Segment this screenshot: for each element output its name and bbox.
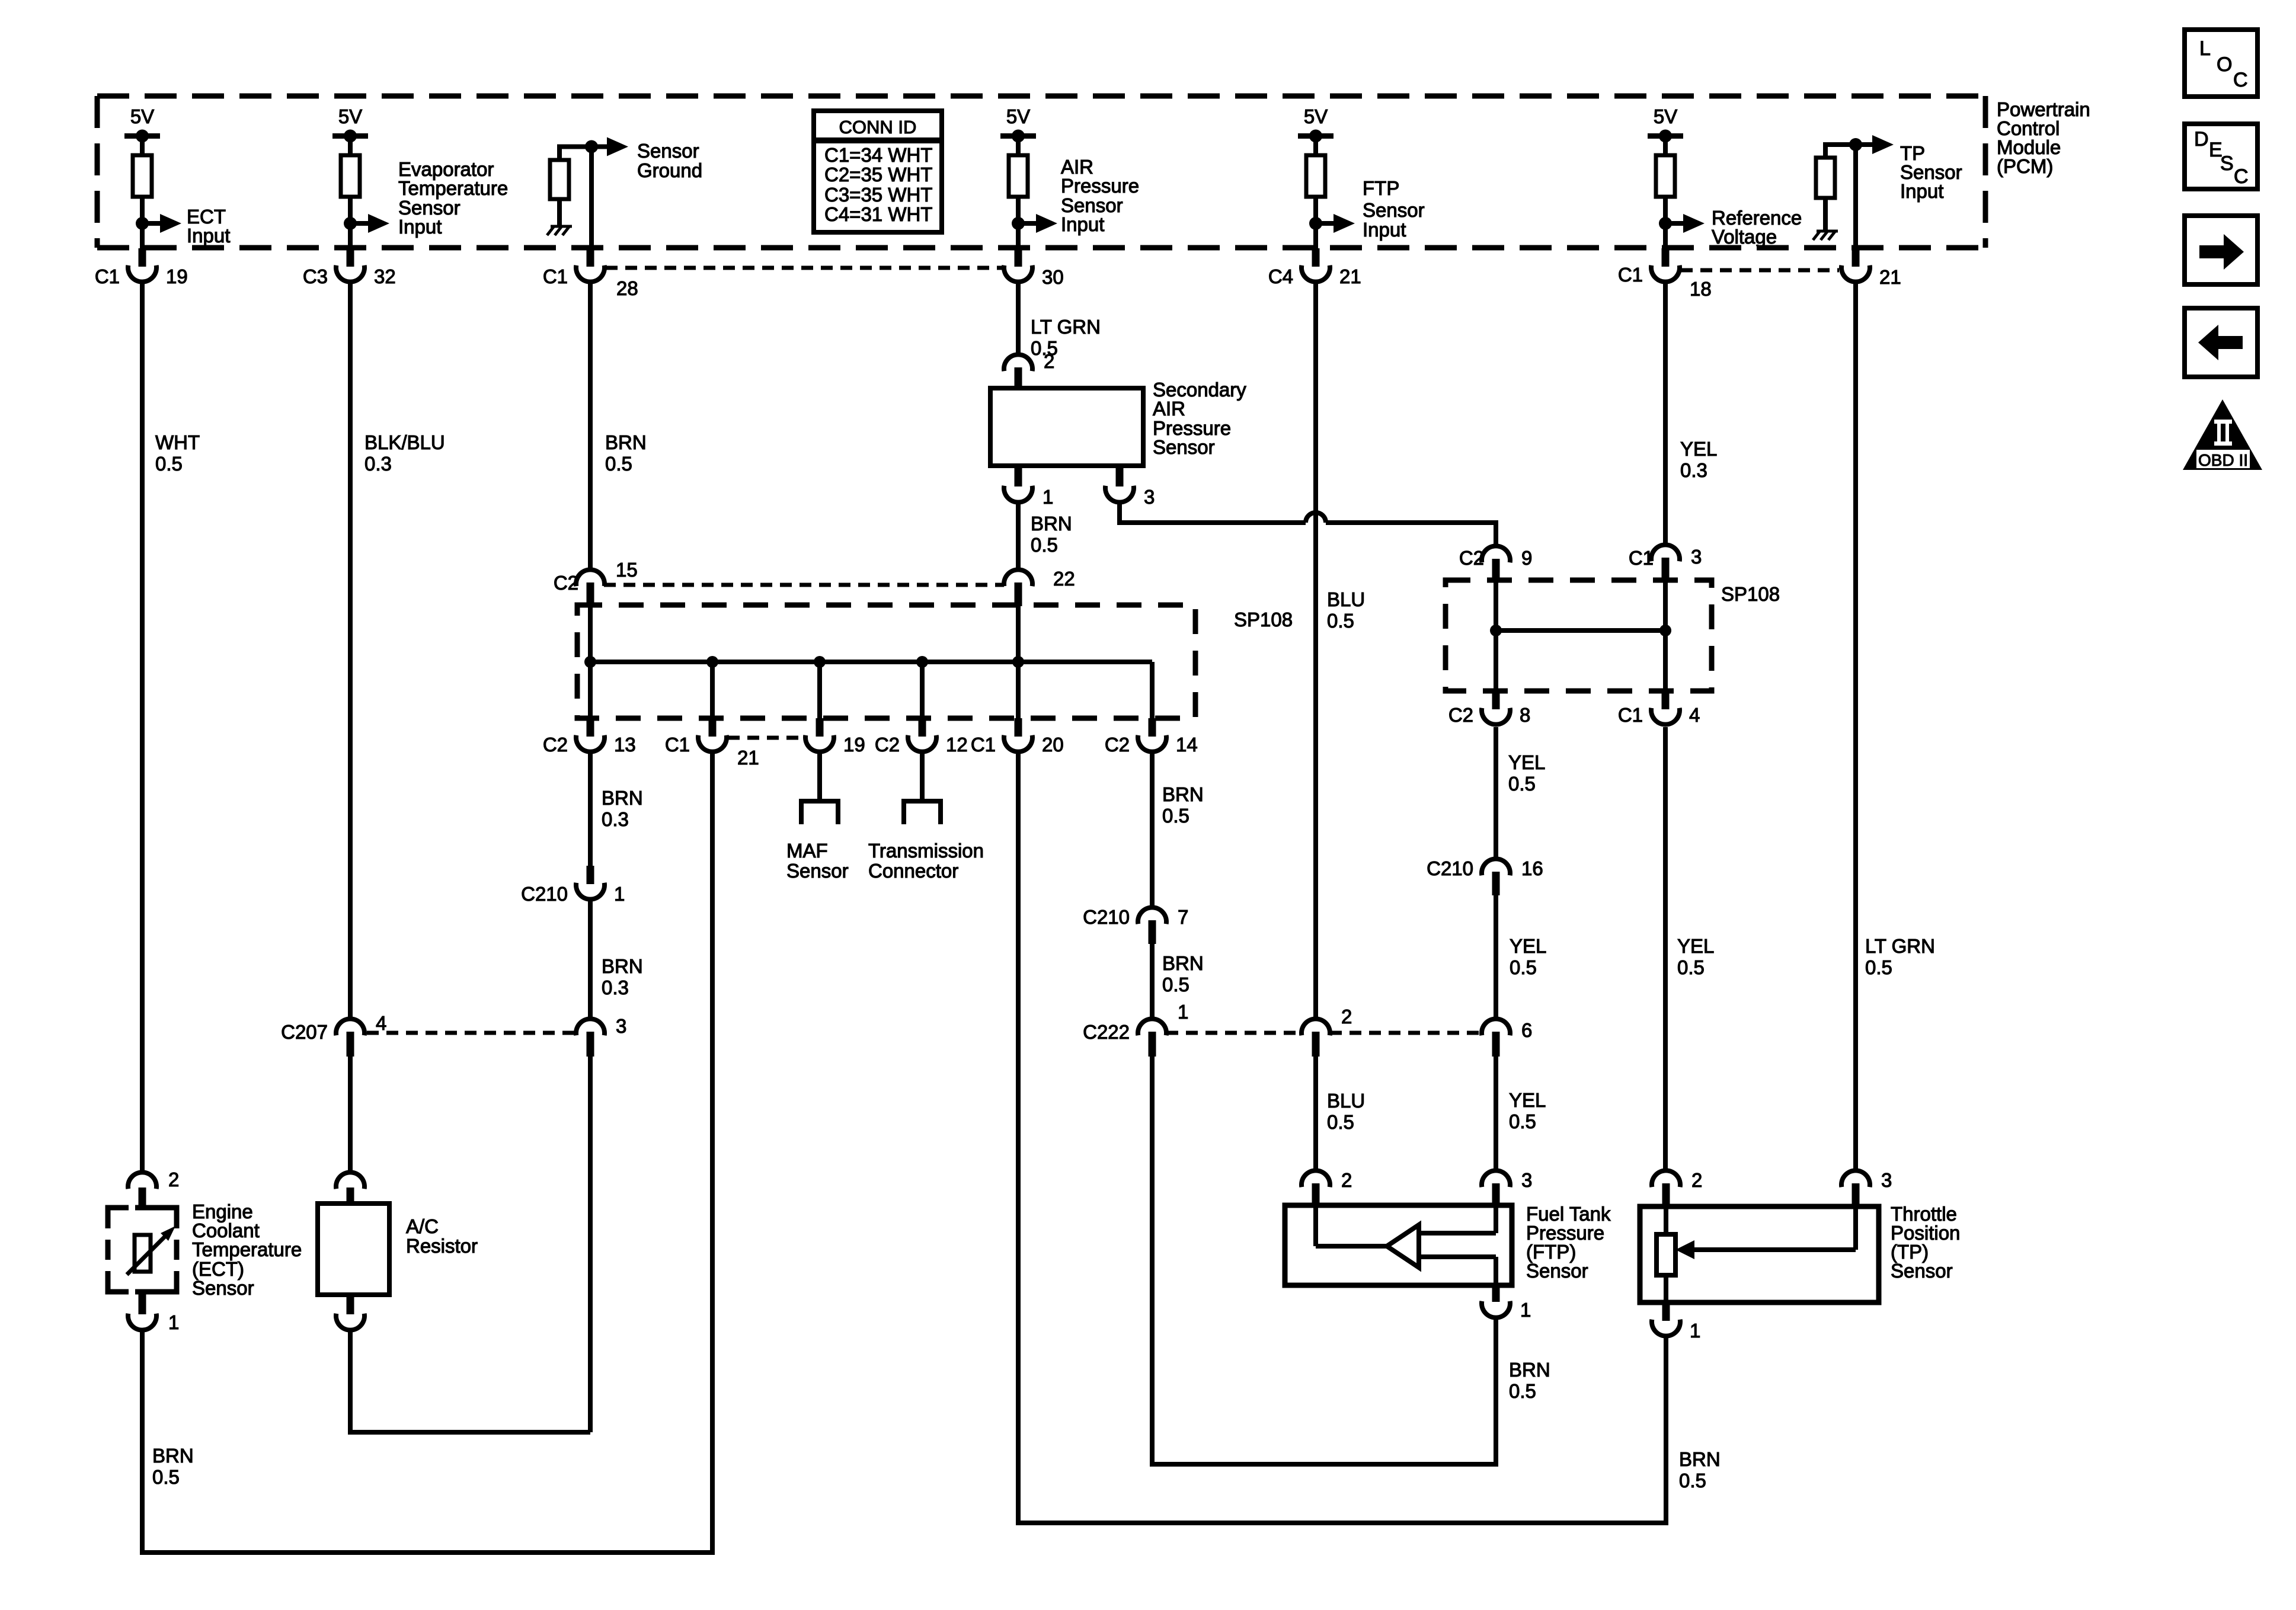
svg-text:BRN: BRN — [602, 787, 643, 809]
svg-text:YEL: YEL — [1510, 935, 1546, 957]
svg-text:4: 4 — [1689, 704, 1700, 726]
svg-text:28: 28 — [616, 277, 638, 299]
svg-text:1: 1 — [1690, 1320, 1700, 1342]
svg-text:19: 19 — [843, 734, 865, 756]
svg-text:C1: C1 — [543, 265, 568, 287]
svg-text:BLU: BLU — [1327, 588, 1365, 610]
svg-text:12: 12 — [946, 734, 968, 756]
svg-text:FTP: FTP — [1363, 177, 1399, 199]
svg-text:21: 21 — [1339, 265, 1361, 287]
svg-text:1: 1 — [168, 1311, 179, 1333]
svg-text:0.3: 0.3 — [1680, 459, 1707, 481]
svg-text:BRN: BRN — [605, 431, 647, 453]
svg-text:16: 16 — [1521, 857, 1543, 879]
svg-text:LT GRN: LT GRN — [1865, 935, 1935, 957]
svg-text:L: L — [2199, 37, 2211, 60]
svg-text:O: O — [2217, 53, 2232, 76]
svg-text:0.5: 0.5 — [155, 453, 183, 475]
svg-text:C: C — [2234, 165, 2249, 188]
svg-text:LT GRN: LT GRN — [1031, 316, 1101, 338]
svg-text:5V: 5V — [1304, 105, 1328, 127]
svg-text:C1: C1 — [1618, 264, 1643, 286]
svg-text:Input: Input — [187, 225, 230, 247]
svg-text:Input: Input — [1061, 213, 1104, 235]
svg-text:BRN: BRN — [1162, 783, 1204, 805]
svg-text:Sensor: Sensor — [1891, 1260, 1953, 1282]
svg-text:Sensor: Sensor — [637, 140, 699, 162]
svg-text:C210: C210 — [521, 883, 568, 905]
svg-text:0.5: 0.5 — [605, 453, 632, 475]
svg-text:C2: C2 — [1105, 734, 1130, 756]
svg-text:18: 18 — [1690, 278, 1712, 300]
svg-text:C210: C210 — [1083, 906, 1130, 928]
svg-text:3: 3 — [616, 1015, 626, 1037]
svg-text:WHT: WHT — [155, 431, 200, 453]
svg-text:22: 22 — [1053, 568, 1075, 590]
svg-text:OBD II: OBD II — [2198, 451, 2248, 469]
svg-text:5V: 5V — [338, 105, 362, 127]
svg-text:0.5: 0.5 — [1508, 773, 1536, 795]
svg-text:C1=34 WHT: C1=34 WHT — [824, 144, 932, 166]
svg-text:15: 15 — [616, 559, 638, 581]
svg-text:0.5: 0.5 — [1031, 534, 1058, 556]
svg-text:2: 2 — [1691, 1169, 1702, 1191]
svg-text:0.5: 0.5 — [1162, 974, 1189, 996]
svg-text:Transmission: Transmission — [868, 840, 984, 862]
svg-text:0.5: 0.5 — [1679, 1470, 1706, 1491]
svg-text:BRN: BRN — [1031, 513, 1072, 534]
svg-text:Temperature: Temperature — [192, 1238, 302, 1260]
svg-text:5V: 5V — [1006, 105, 1030, 127]
svg-text:S: S — [2220, 152, 2234, 175]
svg-text:A/C: A/C — [406, 1215, 439, 1237]
svg-text:SP108: SP108 — [1234, 609, 1293, 630]
svg-text:C1: C1 — [665, 734, 690, 756]
svg-text:2: 2 — [168, 1169, 179, 1190]
svg-text:CONN ID: CONN ID — [839, 117, 917, 137]
svg-text:3: 3 — [1144, 486, 1155, 508]
svg-text:1: 1 — [1520, 1299, 1531, 1321]
svg-text:MAF: MAF — [786, 840, 828, 862]
svg-text:6: 6 — [1521, 1019, 1532, 1041]
svg-text:BLK/BLU: BLK/BLU — [364, 431, 445, 453]
svg-text:Input: Input — [1900, 180, 1943, 202]
svg-text:2: 2 — [1341, 1006, 1352, 1028]
svg-text:0.3: 0.3 — [602, 808, 629, 830]
svg-text:BRN: BRN — [152, 1445, 194, 1467]
svg-text:C1: C1 — [1629, 547, 1654, 569]
svg-text:C1: C1 — [95, 265, 120, 287]
svg-text:YEL: YEL — [1508, 751, 1545, 773]
svg-text:0.5: 0.5 — [1327, 1111, 1354, 1133]
svg-text:8: 8 — [1520, 704, 1530, 726]
svg-text:C4: C4 — [1268, 265, 1293, 287]
svg-text:4: 4 — [376, 1012, 386, 1034]
svg-text:Input: Input — [1363, 219, 1406, 241]
svg-text:C2: C2 — [1459, 547, 1484, 569]
svg-text:21: 21 — [1879, 266, 1901, 288]
svg-text:0.3: 0.3 — [364, 453, 392, 475]
svg-text:3: 3 — [1691, 546, 1702, 568]
svg-text:Voltage: Voltage — [1712, 226, 1777, 248]
svg-text:C3=35 WHT: C3=35 WHT — [824, 184, 932, 206]
svg-text:32: 32 — [374, 265, 396, 287]
svg-text:19: 19 — [166, 265, 188, 287]
svg-text:C2: C2 — [1448, 704, 1473, 726]
svg-text:C207: C207 — [281, 1021, 328, 1043]
svg-text:C: C — [2233, 69, 2248, 91]
svg-text:1: 1 — [1043, 486, 1053, 508]
svg-text:0.5: 0.5 — [1327, 610, 1354, 632]
svg-text:0.5: 0.5 — [1509, 1380, 1536, 1402]
svg-text:Sensor: Sensor — [1153, 436, 1215, 458]
svg-text:C3: C3 — [303, 265, 328, 287]
svg-text:Pressure: Pressure — [1061, 175, 1139, 197]
svg-text:YEL: YEL — [1680, 438, 1717, 460]
svg-text:YEL: YEL — [1677, 935, 1714, 957]
svg-text:BLU: BLU — [1327, 1090, 1365, 1112]
svg-text:Connector: Connector — [868, 860, 958, 882]
svg-text:14: 14 — [1176, 734, 1198, 756]
svg-text:0.5: 0.5 — [1865, 956, 1892, 978]
svg-text:3: 3 — [1881, 1169, 1892, 1191]
svg-text:13: 13 — [614, 734, 636, 756]
svg-text:C4=31 WHT: C4=31 WHT — [824, 203, 932, 225]
svg-text:9: 9 — [1521, 547, 1532, 569]
svg-text:21: 21 — [737, 747, 759, 769]
svg-text:C210: C210 — [1427, 857, 1473, 879]
svg-text:Temperature: Temperature — [398, 177, 508, 199]
svg-text:0.5: 0.5 — [1162, 805, 1189, 827]
svg-text:Input: Input — [398, 216, 442, 238]
svg-text:1: 1 — [614, 883, 625, 905]
svg-text:0.5: 0.5 — [152, 1466, 180, 1488]
svg-text:C2: C2 — [554, 572, 578, 594]
svg-text:C222: C222 — [1083, 1021, 1130, 1043]
svg-text:BRN: BRN — [602, 955, 643, 977]
svg-text:BRN: BRN — [1509, 1359, 1550, 1381]
svg-text:(PCM): (PCM) — [1997, 155, 2053, 177]
svg-text:2: 2 — [1044, 350, 1054, 372]
svg-text:5V: 5V — [1654, 105, 1677, 127]
svg-text:0.5: 0.5 — [1509, 1110, 1536, 1132]
svg-text:Resistor: Resistor — [406, 1235, 478, 1257]
svg-text:30: 30 — [1042, 266, 1064, 288]
svg-text:0.5: 0.5 — [1677, 956, 1705, 978]
svg-text:20: 20 — [1042, 734, 1064, 756]
svg-text:Sensor: Sensor — [1363, 199, 1425, 221]
svg-text:2: 2 — [1341, 1169, 1352, 1191]
svg-text:SP108: SP108 — [1721, 583, 1780, 605]
svg-text:C2: C2 — [543, 734, 568, 756]
svg-text:5V: 5V — [130, 105, 154, 127]
svg-text:C2: C2 — [875, 734, 900, 756]
svg-text:0.3: 0.3 — [602, 977, 629, 998]
svg-text:0.5: 0.5 — [1510, 956, 1537, 978]
svg-text:D: D — [2194, 128, 2209, 151]
svg-text:Ground: Ground — [637, 159, 702, 181]
svg-text:AIR: AIR — [1153, 398, 1185, 420]
svg-text:1: 1 — [1178, 1001, 1188, 1023]
svg-text:Sensor: Sensor — [1526, 1260, 1588, 1282]
svg-text:BRN: BRN — [1162, 952, 1204, 974]
svg-text:BRN: BRN — [1679, 1448, 1721, 1470]
svg-text:7: 7 — [1178, 906, 1188, 928]
svg-text:3: 3 — [1521, 1169, 1532, 1191]
svg-text:Sensor: Sensor — [786, 860, 849, 882]
svg-text:C1: C1 — [971, 734, 996, 756]
svg-text:Sensor: Sensor — [192, 1277, 254, 1299]
svg-text:C1: C1 — [1618, 704, 1643, 726]
svg-text:C2=35 WHT: C2=35 WHT — [824, 164, 932, 185]
svg-text:YEL: YEL — [1509, 1089, 1546, 1111]
